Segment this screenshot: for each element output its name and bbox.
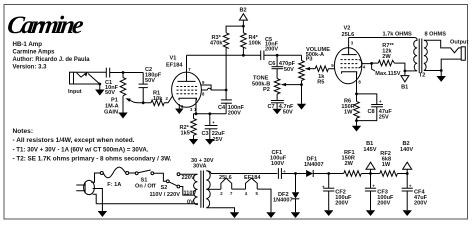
svg-text:- T1: 30V + 30V - 1A (60V w/ C: - T1: 30V + 30V - 1A (60V w/ CT 500mA) =… bbox=[13, 146, 149, 153]
node DF2 tap bbox=[294, 172, 297, 175]
wire plug neutral bbox=[93, 194, 97, 204]
ground (heater) bbox=[266, 212, 275, 218]
svg-text:50V: 50V bbox=[105, 90, 115, 96]
node input ground junction bbox=[98, 83, 101, 86]
svg-text:100k: 100k bbox=[249, 41, 262, 47]
resistor R7** 12k 2W bbox=[378, 43, 405, 71]
capacitor CF1 100uF bbox=[270, 150, 287, 179]
svg-text:1W: 1W bbox=[382, 162, 391, 168]
node cathode/C3 bbox=[208, 112, 211, 115]
wire S2 to 110V tap bbox=[180, 187, 195, 196]
svg-text:25L6: 25L6 bbox=[219, 175, 232, 181]
ground (V2 cathode) bbox=[352, 121, 361, 132]
svg-text:10k: 10k bbox=[153, 96, 163, 102]
pentode V2 25L6 bbox=[334, 26, 362, 94]
svg-text:1N4007: 1N4007 bbox=[304, 162, 324, 168]
capacitor CF4 47uF bbox=[402, 174, 428, 211]
svg-text:Input: Input bbox=[68, 89, 82, 95]
notes text bbox=[13, 128, 172, 163]
wire C1 to node A bbox=[110, 72, 144, 74]
capacitor CF3 100uF bbox=[365, 174, 394, 211]
wire fuse to S1 bbox=[129, 172, 136, 174]
svg-text:50V: 50V bbox=[283, 109, 293, 115]
node cathode/V1 bbox=[195, 112, 198, 115]
pentode V1 EF184 bbox=[166, 55, 201, 107]
node V2 cathode bbox=[355, 93, 358, 96]
svg-text:1N4007: 1N4007 bbox=[273, 197, 293, 203]
svg-text:R5: R5 bbox=[317, 79, 324, 85]
svg-text:220V: 220V bbox=[182, 175, 195, 181]
wire T1 center tap heater feed bbox=[206, 188, 221, 190]
ground (P1) bbox=[118, 113, 127, 119]
ground (output) bbox=[437, 71, 446, 82]
resistor RF1 150R 2W bbox=[329, 150, 371, 177]
svg-text:8 OHMS: 8 OHMS bbox=[425, 32, 447, 38]
label Max.115V with leader bbox=[372, 64, 401, 78]
ground (CF3) bbox=[366, 210, 375, 216]
title Carmine bbox=[5, 12, 85, 39]
svg-text:- All resistors 1/4W, except w: - All resistors 1/4W, except when noted. bbox=[13, 137, 135, 144]
node output ground bbox=[440, 69, 443, 72]
node C6 tap bbox=[276, 54, 279, 57]
node P2 wiper to P3 bottom bbox=[300, 83, 303, 86]
svg-text:50V: 50V bbox=[284, 67, 294, 73]
ground (mains earth) bbox=[98, 211, 107, 217]
node A (C1/P1/C2) bbox=[122, 71, 125, 74]
svg-text:Version: 3.3: Version: 3.3 bbox=[13, 64, 47, 71]
resistor RF2 6k8 1W bbox=[371, 151, 408, 177]
svg-text:C6: C6 bbox=[268, 61, 275, 67]
wire T1 secondary bottom to ground bbox=[211, 208, 234, 212]
svg-text:0V: 0V bbox=[187, 199, 194, 205]
svg-text:30VA: 30VA bbox=[193, 164, 207, 170]
resistor R3* 470k bbox=[210, 33, 229, 49]
ground (input jack) bbox=[95, 84, 104, 96]
wire C5 to P3 bbox=[264, 54, 302, 56]
wire heater end to ground bbox=[257, 189, 271, 212]
wire T2 secondary bottom bbox=[424, 70, 441, 72]
transformer T1 bbox=[182, 158, 214, 208]
wire plug live to fuse bbox=[91, 173, 100, 182]
wire CF1 to DF1 bbox=[281, 173, 306, 175]
capacitor C3 22uF electrolytic bbox=[202, 114, 226, 143]
wire V1 pin 9 (g3) bbox=[201, 80, 211, 90]
node plate/R4 bbox=[242, 54, 245, 57]
svg-text:470pF: 470pF bbox=[279, 61, 296, 67]
node B2 rail bbox=[406, 172, 409, 175]
svg-text:V2: V2 bbox=[344, 26, 351, 32]
heater EF184 (pins 4,5) bbox=[244, 175, 261, 196]
capacitor C4 100nF bbox=[218, 90, 245, 116]
fuse F:1A bbox=[100, 167, 128, 188]
wire node to T2 primary bottom bbox=[405, 70, 412, 72]
wire V2 screen pin 4 to R7 bbox=[362, 63, 379, 69]
svg-text:110V / 220V: 110V / 220V bbox=[150, 192, 181, 198]
svg-text:C8: C8 bbox=[368, 109, 375, 115]
svg-text:Author: Ricardo J. de Paula: Author: Ricardo J. de Paula bbox=[13, 56, 90, 63]
node B1/T2 primary bbox=[404, 70, 407, 73]
svg-text:145V: 145V bbox=[363, 147, 376, 153]
svg-text:Notes:: Notes: bbox=[13, 128, 34, 135]
svg-text:100V: 100V bbox=[271, 161, 284, 167]
AC plug bbox=[77, 180, 95, 194]
capacitor C5 10nF coupling bbox=[261, 37, 279, 60]
ground (CF4) bbox=[403, 210, 412, 216]
svg-text:200V: 200V bbox=[265, 46, 278, 52]
svg-text:- T2: SE 1.7K ohms primary - 8: - T2: SE 1.7K ohms primary - 8 ohms seco… bbox=[13, 156, 172, 163]
heater 25L6 (pins 2,7) bbox=[219, 175, 233, 196]
svg-text:Carmine Amps: Carmine Amps bbox=[13, 49, 55, 56]
svg-text:V1: V1 bbox=[170, 56, 177, 62]
potentiometer P2 TONE 500k-B bbox=[252, 74, 302, 100]
title block text bbox=[13, 41, 90, 71]
svg-text:25V: 25V bbox=[213, 137, 223, 143]
svg-text:200V: 200V bbox=[377, 201, 390, 207]
resistor R1 10k bbox=[151, 91, 172, 106]
ground (C7) bbox=[273, 109, 282, 115]
node Max115V pointer bbox=[370, 62, 373, 65]
svg-text:1.7k OHMS: 1.7k OHMS bbox=[383, 32, 412, 38]
svg-text:140V: 140V bbox=[400, 147, 413, 153]
resistor R4* 100k bbox=[241, 33, 262, 56]
wire V2 plate to T2 primary top bbox=[349, 37, 414, 39]
ground (T1 secondary) bbox=[230, 212, 239, 218]
node B1 flag psu bbox=[363, 141, 376, 174]
wire V1 pin2 (grid) bbox=[171, 95, 174, 97]
wire cathode bus bbox=[194, 113, 227, 115]
resistor R5 1k bbox=[315, 66, 335, 85]
svg-text:470k: 470k bbox=[210, 41, 223, 47]
V1 pin 6 shield lead + ground bbox=[175, 104, 184, 114]
svg-text:1W: 1W bbox=[344, 109, 353, 115]
svg-text:50V: 50V bbox=[145, 78, 155, 84]
wire V1 pin 8 (g2, hop over) bbox=[201, 88, 226, 96]
wire T1 0V tap to neutral bbox=[96, 203, 197, 206]
output jack bbox=[441, 40, 468, 71]
capacitor C6 470pF bbox=[268, 55, 295, 74]
svg-text:P2: P2 bbox=[263, 87, 270, 93]
svg-text:25V: 25V bbox=[379, 115, 389, 121]
wire heater link bbox=[232, 188, 246, 190]
svg-text:EF184: EF184 bbox=[166, 63, 183, 69]
input jack J1 bbox=[68, 72, 100, 95]
capacitor C2 180pF bbox=[139, 67, 162, 103]
V1 cathode lead pins 3,1 bbox=[190, 98, 197, 114]
capacitor C7 4.7nF bbox=[268, 101, 294, 116]
transformer T2 bbox=[383, 32, 447, 79]
svg-text:S2: S2 bbox=[161, 185, 168, 191]
wire plate line V1 to C5 bbox=[187, 54, 261, 56]
potentiometer P3 VOLUME 500k-A bbox=[299, 47, 330, 104]
svg-text:Carmine: Carmine bbox=[5, 12, 85, 39]
svg-text:T2: T2 bbox=[419, 73, 426, 79]
svg-text:200V: 200V bbox=[414, 201, 427, 207]
wire B2 to R3/R4 bbox=[226, 26, 243, 33]
diode DF2 1N4007 bbox=[273, 174, 299, 213]
potentiometer P1 1M-A GAIN bbox=[104, 73, 151, 116]
node R6/C8 bottom bbox=[355, 119, 358, 122]
node B2 top feed bbox=[239, 8, 247, 27]
wire T1 secondary top rail bbox=[211, 173, 277, 175]
svg-text:1k5: 1k5 bbox=[181, 131, 190, 137]
ground (CF2) bbox=[324, 210, 333, 216]
ground (P3) bbox=[297, 104, 306, 110]
svg-text:Output: Output bbox=[450, 40, 468, 46]
capacitor C1 bbox=[105, 68, 119, 96]
wire R3 bottom to screen node bbox=[225, 47, 227, 90]
diode DF1 1N4007 bbox=[304, 156, 329, 177]
resistor R6 150R 1W bbox=[341, 94, 359, 121]
svg-text:Max.115V: Max.115V bbox=[375, 71, 400, 77]
wire plug earth bbox=[93, 189, 103, 212]
svg-text:B1: B1 bbox=[401, 85, 408, 91]
capacitor C8 47uF electrolytic bbox=[357, 94, 393, 121]
wire T2 secondary top to output bbox=[424, 40, 448, 48]
svg-text:F: 1A: F: 1A bbox=[107, 182, 121, 188]
svg-text:P3: P3 bbox=[306, 57, 313, 63]
wire S2 to 220V tap bbox=[180, 173, 198, 175]
ground (R2) bbox=[189, 139, 198, 145]
svg-text:GAIN: GAIN bbox=[104, 110, 118, 116]
wire S1 to S2 bbox=[154, 173, 167, 181]
node B1 flag bbox=[401, 71, 409, 91]
node B (C2/wiper) bbox=[142, 101, 145, 104]
svg-text:2W: 2W bbox=[345, 161, 354, 167]
capacitor CF2 100uF bbox=[322, 174, 352, 211]
switch S1 On/Off bbox=[135, 170, 156, 189]
svg-text:200V: 200V bbox=[228, 110, 241, 116]
svg-text:2W: 2W bbox=[382, 54, 391, 60]
node screen (pin8/9, R3, C4) bbox=[225, 89, 228, 92]
wire input to C1 bbox=[74, 71, 107, 73]
svg-text:On / Off: On / Off bbox=[135, 183, 156, 189]
svg-text:B2: B2 bbox=[240, 8, 247, 14]
node B2 flag psu bbox=[400, 141, 413, 174]
node B1 rail bbox=[369, 172, 372, 175]
svg-text:HB-1 Amp: HB-1 Amp bbox=[13, 41, 43, 48]
svg-text:C4: C4 bbox=[218, 105, 226, 111]
ground (DF2) bbox=[291, 212, 300, 218]
ground (C3) bbox=[205, 139, 214, 145]
switch S2 110V/220V bbox=[150, 173, 181, 198]
node CF2 bbox=[327, 172, 330, 175]
resistor R2* 1k5 bbox=[180, 114, 197, 139]
svg-text:C3: C3 bbox=[202, 131, 209, 137]
svg-text:200V: 200V bbox=[335, 201, 348, 207]
